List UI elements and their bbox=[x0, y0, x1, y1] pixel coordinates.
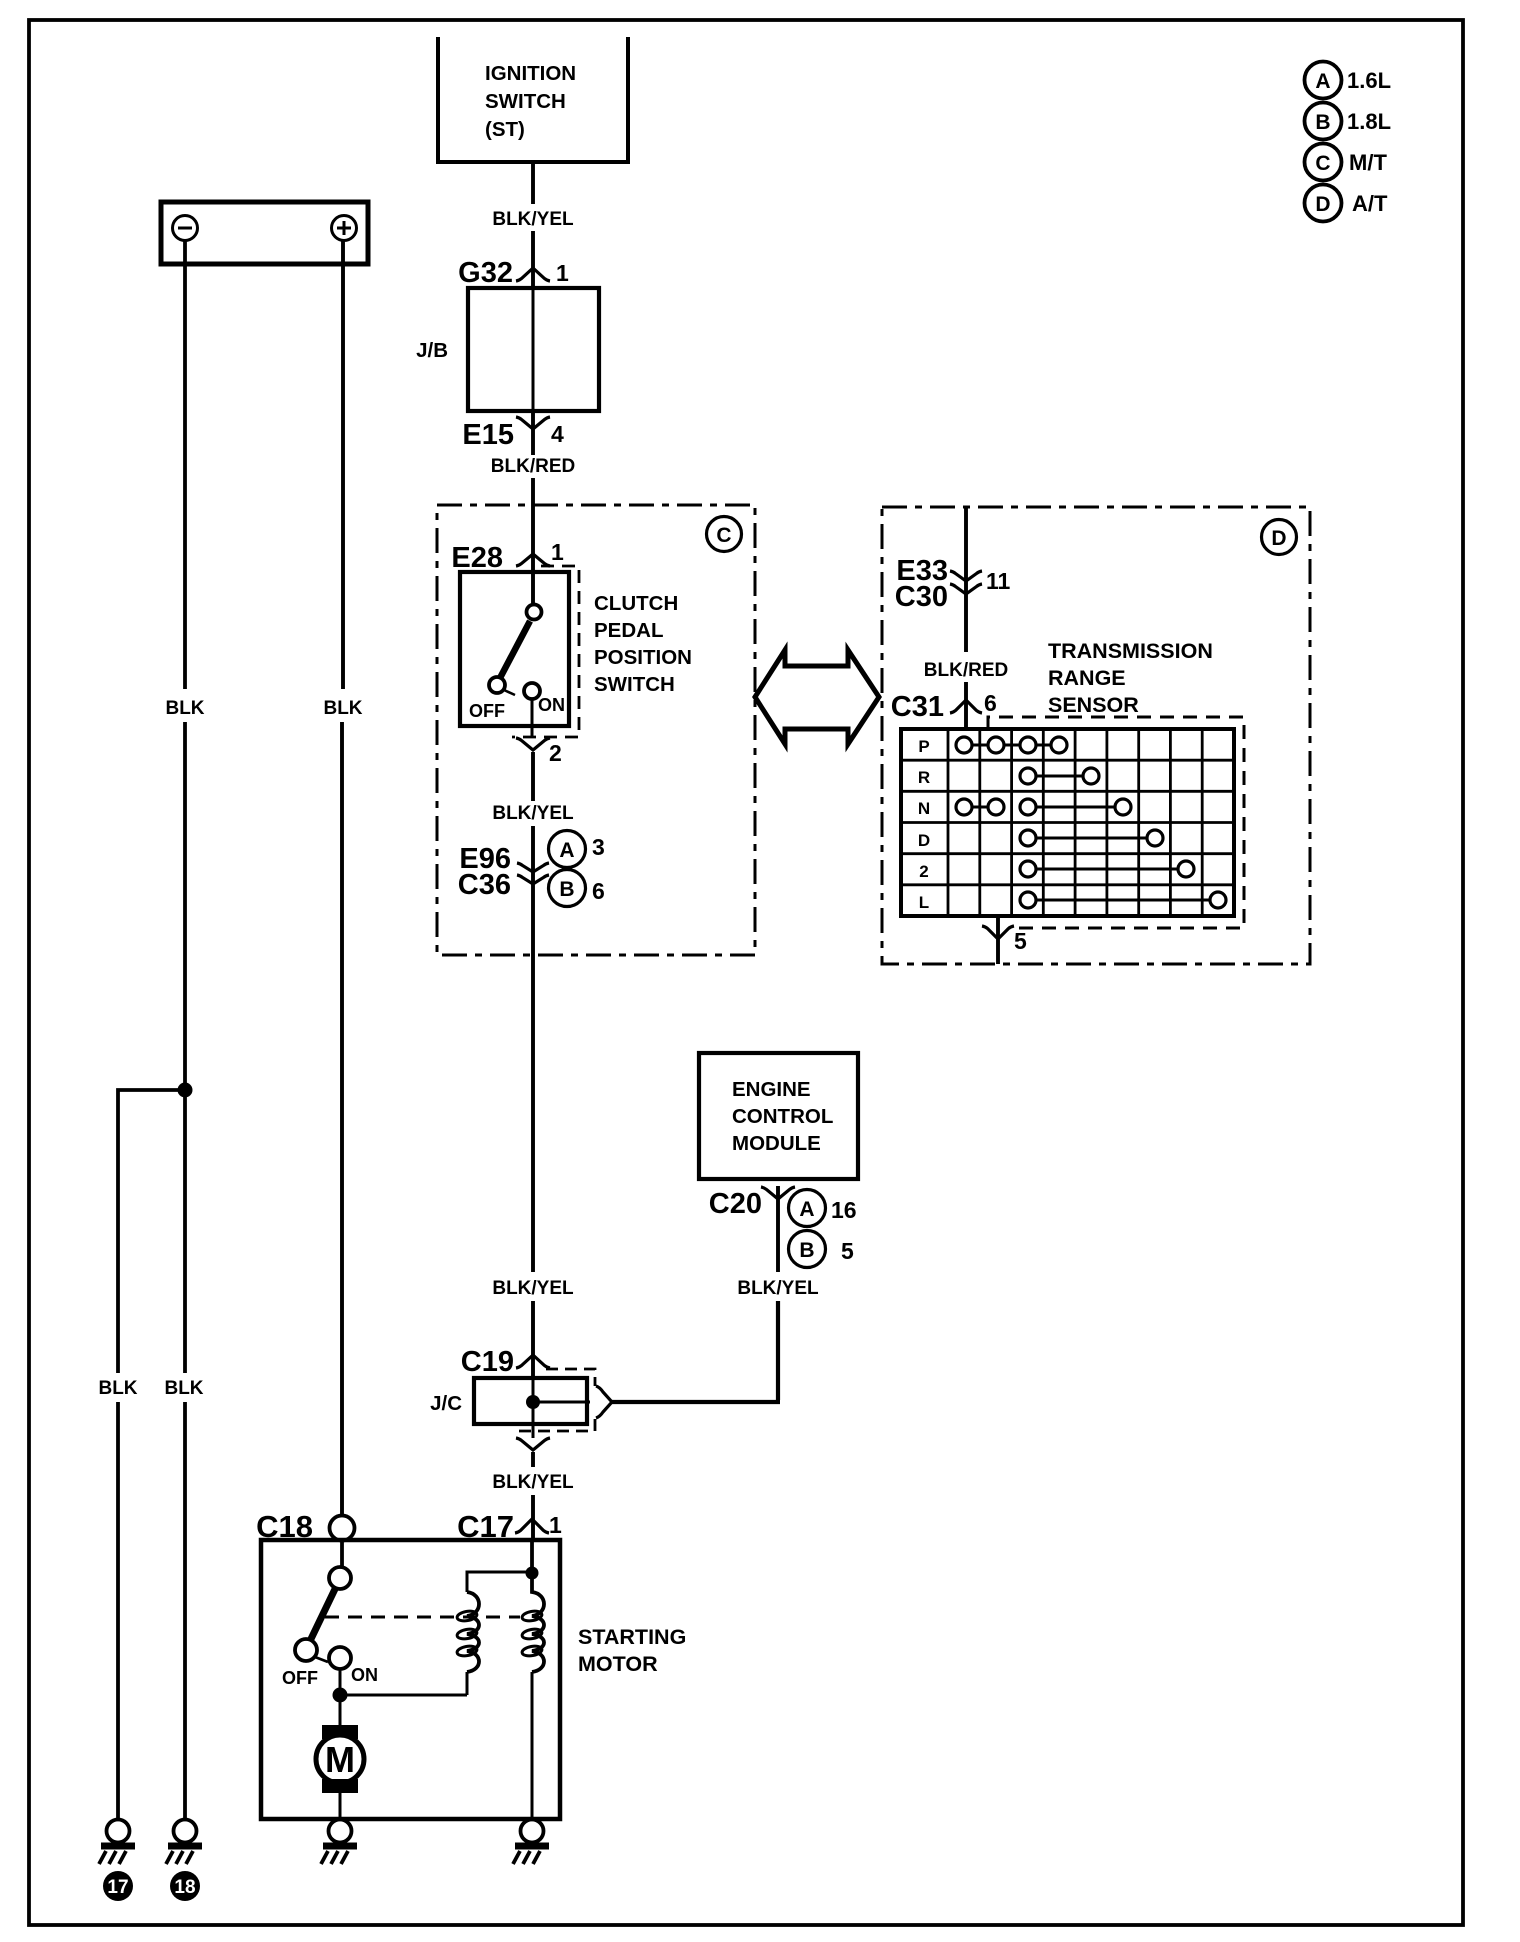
double arrow between box C and box D bbox=[755, 650, 879, 744]
connector G32 pin 1 bbox=[458, 257, 569, 289]
wire C17 into box bbox=[530, 1540, 534, 1573]
connector E28 pin 1 bbox=[451, 539, 564, 574]
svg-text:IGNITION: IGNITION bbox=[485, 62, 576, 85]
svg-text:1: 1 bbox=[549, 1512, 562, 1538]
svg-text:BLK: BLK bbox=[98, 1378, 137, 1399]
wire main down to C19 bbox=[531, 1301, 535, 1378]
L row contacts bbox=[1020, 892, 1226, 908]
svg-text:5: 5 bbox=[841, 1238, 854, 1264]
ground junction dot bbox=[178, 1083, 193, 1098]
ground symbol under motor bbox=[321, 1820, 357, 1865]
svg-text:MOTOR: MOTOR bbox=[578, 1652, 658, 1676]
svg-text:6: 6 bbox=[592, 878, 605, 904]
ignition switch SW1 box bbox=[438, 37, 628, 162]
svg-text:1.8L: 1.8L bbox=[1347, 109, 1391, 134]
clutch switch ON contact bbox=[524, 683, 565, 715]
svg-text:A: A bbox=[559, 839, 574, 862]
svg-text:1.6L: 1.6L bbox=[1347, 68, 1391, 93]
sensor output wire pin 5 bbox=[982, 916, 1027, 964]
svg-text:SENSOR: SENSOR bbox=[1048, 693, 1139, 717]
starting motor box bbox=[261, 1540, 686, 1819]
svg-text:BLK/YEL: BLK/YEL bbox=[737, 1278, 819, 1299]
P row contacts bbox=[956, 737, 1067, 753]
option circle B pin 6 bbox=[549, 870, 605, 907]
option circle A pin 16 bbox=[789, 1190, 857, 1227]
wire ON contact down bbox=[531, 699, 534, 737]
svg-text:BLK/RED: BLK/RED bbox=[491, 456, 575, 477]
connector chevron below J/C bbox=[516, 1438, 550, 1450]
junction block J/B bbox=[416, 288, 599, 411]
connector C20 bbox=[709, 1187, 795, 1220]
svg-text:M: M bbox=[325, 1739, 355, 1780]
wire BLK/RED into sensor grid bbox=[964, 682, 968, 729]
svg-text:PEDAL: PEDAL bbox=[594, 619, 663, 642]
svg-text:C36: C36 bbox=[458, 869, 511, 901]
svg-text:B: B bbox=[1315, 111, 1330, 134]
clutch switch OFF contact bbox=[469, 677, 515, 721]
svg-text:C19: C19 bbox=[461, 1346, 514, 1378]
svg-text:C: C bbox=[1315, 152, 1330, 175]
svg-text:18: 18 bbox=[174, 1877, 195, 1898]
svg-text:A/T: A/T bbox=[1352, 191, 1388, 216]
wire to C17 bbox=[531, 1495, 535, 1540]
wire junction to coil bottom bbox=[340, 1694, 467, 1697]
relay actuation dashed line bbox=[325, 1616, 520, 1619]
svg-text:16: 16 bbox=[831, 1197, 857, 1223]
svg-text:B: B bbox=[799, 1239, 814, 1262]
svg-text:OFF: OFF bbox=[282, 1668, 318, 1688]
svg-text:MODULE: MODULE bbox=[732, 1132, 821, 1155]
svg-text:6: 6 bbox=[984, 690, 997, 716]
wire J/C down bbox=[532, 1424, 535, 1438]
ground number 17 bbox=[103, 1871, 133, 1901]
clutch pedal position switch label bbox=[594, 592, 692, 696]
2 row contacts bbox=[1020, 861, 1194, 877]
junction dot in J/C bbox=[526, 1395, 540, 1409]
svg-text:BLK: BLK bbox=[165, 698, 204, 719]
wire BLK/RED into box C bbox=[531, 478, 535, 604]
svg-text:D: D bbox=[918, 831, 930, 850]
ground symbol 18 bbox=[166, 1820, 202, 1865]
svg-text:3: 3 bbox=[592, 834, 605, 860]
svg-text:1: 1 bbox=[551, 539, 564, 565]
wire main ground down bbox=[183, 1090, 187, 1373]
clutch switch arm bbox=[500, 621, 530, 678]
engine control module box bbox=[699, 1053, 858, 1179]
R row contacts bbox=[1020, 768, 1099, 784]
svg-text:R: R bbox=[918, 768, 930, 787]
svg-text:BLK/YEL: BLK/YEL bbox=[492, 209, 574, 230]
wire BLK/YEL down to C19 bbox=[531, 826, 535, 1272]
connector pin 2 bbox=[516, 738, 562, 766]
svg-text:CLUTCH: CLUTCH bbox=[594, 592, 678, 615]
wire dot to right chevron bbox=[533, 1401, 590, 1404]
wire ECM branch down to corner bbox=[776, 1301, 780, 1400]
A/T option box D (dash-dot) bbox=[882, 507, 1310, 964]
svg-text:2: 2 bbox=[919, 862, 928, 881]
svg-text:J/C: J/C bbox=[430, 1392, 462, 1415]
wire ON contact to junction bbox=[339, 1669, 342, 1695]
wire to ground 17 bbox=[116, 1402, 120, 1820]
wire pin2 down bbox=[531, 752, 535, 801]
option circle B pin 5 bbox=[789, 1231, 855, 1268]
wire BLK/YEL into J/B bbox=[531, 231, 535, 288]
svg-text:11: 11 bbox=[986, 568, 1011, 594]
wire battery positive down bbox=[341, 240, 345, 689]
svg-text:L: L bbox=[919, 893, 929, 912]
connector C19 bbox=[461, 1346, 550, 1378]
transmission range sensor contact grid bbox=[901, 729, 1234, 916]
ground symbol 17 bbox=[99, 1820, 135, 1865]
wire corner to J/C bbox=[610, 1400, 780, 1404]
hold-in coil L2 bbox=[521, 1573, 544, 1819]
wire E15 down bbox=[531, 411, 535, 455]
svg-text:D: D bbox=[1315, 193, 1330, 216]
wire ignition switch to G32 bbox=[531, 162, 535, 204]
svg-text:(ST): (ST) bbox=[485, 118, 525, 141]
svg-text:BLK: BLK bbox=[323, 698, 362, 719]
svg-text:N: N bbox=[918, 799, 930, 818]
connector C17 pin 1 bbox=[457, 1509, 562, 1544]
svg-text:D: D bbox=[1271, 527, 1286, 550]
svg-text:OFF: OFF bbox=[469, 701, 505, 721]
clutch switch contact (pole) bbox=[527, 605, 542, 620]
starter relay switch pole bbox=[329, 1567, 351, 1589]
svg-text:ON: ON bbox=[538, 695, 565, 715]
legend circle B bbox=[1305, 103, 1342, 140]
starter relay OFF contact bbox=[282, 1639, 328, 1688]
ground symbol under coil bbox=[513, 1820, 549, 1865]
battery bbox=[161, 202, 368, 264]
wire junction down to motor bbox=[339, 1695, 342, 1725]
pull-in coil L1 bbox=[456, 1592, 479, 1695]
wire down to BLK/YEL bbox=[531, 1452, 535, 1467]
transmission range sensor dashed outline bbox=[988, 717, 1244, 928]
wire to ground 18 bbox=[183, 1402, 187, 1820]
N row contacts bbox=[956, 799, 1131, 815]
wire BLK to C18 bbox=[340, 722, 344, 1516]
svg-text:SWITCH: SWITCH bbox=[594, 673, 675, 696]
motor M bbox=[316, 1725, 364, 1819]
wire BLK to junction bbox=[183, 722, 187, 1090]
wire box D top to E33 bbox=[964, 507, 968, 652]
legend circle C bbox=[1305, 144, 1342, 181]
svg-text:M/T: M/T bbox=[1349, 150, 1387, 175]
svg-text:C31: C31 bbox=[891, 691, 944, 723]
svg-text:A: A bbox=[1315, 70, 1330, 93]
connector E33 C30 pin 11 bbox=[895, 555, 1011, 613]
svg-text:ON: ON bbox=[351, 1665, 378, 1685]
junction dot below ON bbox=[333, 1688, 348, 1703]
svg-text:C30: C30 bbox=[895, 581, 948, 613]
svg-text:CONTROL: CONTROL bbox=[732, 1105, 833, 1128]
transmission range sensor label bbox=[1048, 639, 1213, 717]
wire branch to left ground bbox=[118, 1090, 185, 1373]
svg-text:BLK/YEL: BLK/YEL bbox=[492, 1472, 574, 1493]
svg-text:B: B bbox=[559, 878, 574, 901]
svg-text:SWITCH: SWITCH bbox=[485, 90, 566, 113]
legend circle D bbox=[1305, 185, 1342, 222]
svg-text:POSITION: POSITION bbox=[594, 646, 692, 669]
wire C20 down bbox=[776, 1186, 780, 1272]
D row contacts bbox=[1020, 830, 1163, 846]
wire C18 into box bbox=[340, 1541, 344, 1568]
connector C31 pin 6 bbox=[891, 690, 997, 723]
svg-text:ENGINE: ENGINE bbox=[732, 1078, 811, 1101]
connector E15 pin 4 bbox=[462, 417, 564, 451]
svg-text:E28: E28 bbox=[451, 542, 503, 574]
svg-text:5: 5 bbox=[1014, 928, 1027, 954]
svg-text:E15: E15 bbox=[462, 419, 514, 451]
svg-text:BLK/YEL: BLK/YEL bbox=[492, 1278, 574, 1299]
wire through J/C bbox=[532, 1378, 535, 1424]
wire dot to left coil top bbox=[467, 1572, 532, 1592]
svg-text:C: C bbox=[716, 524, 731, 547]
M/T option box C (dash-dot) bbox=[437, 505, 755, 955]
svg-text:BLK/RED: BLK/RED bbox=[924, 660, 1008, 681]
connector chevron right (J/C output) bbox=[596, 1386, 612, 1418]
svg-text:17: 17 bbox=[107, 1877, 128, 1898]
svg-text:P: P bbox=[918, 737, 929, 756]
svg-text:RANGE: RANGE bbox=[1048, 666, 1126, 690]
svg-text:J/B: J/B bbox=[416, 339, 448, 362]
wire battery negative down bbox=[183, 240, 187, 689]
wire through J/B bbox=[532, 288, 535, 411]
starter relay ON contact bbox=[329, 1647, 378, 1685]
option circle A pin 3 bbox=[549, 831, 605, 868]
svg-text:C20: C20 bbox=[709, 1188, 762, 1220]
svg-text:G32: G32 bbox=[458, 257, 513, 289]
ground number 18 bbox=[170, 1871, 200, 1901]
svg-text:TRANSMISSION: TRANSMISSION bbox=[1048, 639, 1213, 663]
connector C18 bbox=[256, 1509, 354, 1544]
svg-text:A: A bbox=[799, 1198, 814, 1221]
svg-text:STARTING: STARTING bbox=[578, 1625, 686, 1649]
clutch pedal position switch body bbox=[460, 566, 579, 737]
junction connector J/C box bbox=[430, 1369, 595, 1431]
legend circle A bbox=[1305, 62, 1342, 99]
junction dot on C17 wire bbox=[526, 1567, 539, 1580]
svg-text:2: 2 bbox=[549, 740, 562, 766]
svg-text:1: 1 bbox=[556, 260, 569, 286]
svg-text:BLK: BLK bbox=[164, 1378, 203, 1399]
starter relay switch arm bbox=[310, 1589, 335, 1641]
svg-text:4: 4 bbox=[551, 421, 564, 447]
svg-text:BLK/YEL: BLK/YEL bbox=[492, 803, 574, 824]
connector E96 C36 bbox=[458, 843, 549, 901]
